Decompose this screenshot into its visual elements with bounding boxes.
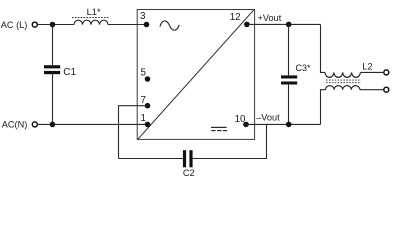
capacitor C3	[281, 75, 297, 84]
svg-text:12: 12	[230, 12, 241, 23]
svg-text:–Vout: –Vout	[256, 113, 280, 123]
node: C3 on +Vout rail	[286, 22, 292, 28]
converter module diagonal divider	[138, 10, 254, 140]
inductor L2 top winding	[325, 72, 360, 77]
capacitor C2	[183, 150, 193, 167]
node: C3 on -Vout rail	[286, 122, 292, 128]
terminal: +V output	[384, 70, 389, 75]
svg-text:AC(N): AC(N)	[2, 119, 28, 129]
node: junction of AC(N) and C1	[50, 122, 56, 128]
svg-text:C1: C1	[63, 67, 76, 78]
wire: -Vout rail up to L2 bottom winding	[321, 90, 326, 125]
wire: C3 upper lead	[288, 24, 290, 75]
pin 5	[145, 76, 151, 82]
svg-text:+Vout: +Vout	[258, 13, 282, 23]
DC symbol inside module	[211, 127, 227, 130]
wire: bottom rail right of C2 up to -Vout rail	[193, 124, 267, 158]
svg-text:L2: L2	[362, 62, 372, 72]
wire: pin 7 to bottom rail	[119, 106, 148, 159]
coupling dashed line of L1	[72, 17, 109, 19]
terminal: AC neutral input	[32, 122, 37, 127]
pin 10	[243, 122, 249, 128]
svg-text:C2: C2	[183, 168, 195, 178]
wire: +Vout rail down to L2 top winding	[321, 24, 326, 72]
wire: C3 lower lead	[288, 85, 290, 125]
wire: C1 upper lead	[52, 25, 54, 66]
wire: L2 bottom winding to output terminal	[360, 89, 384, 91]
inductor L1	[74, 20, 108, 24]
converter module U1 body	[137, 10, 254, 140]
pin 3	[144, 22, 150, 28]
svg-text:C3*: C3*	[296, 63, 312, 73]
wire: AC(L) input to pin 3	[38, 24, 147, 26]
pin 1	[145, 122, 151, 128]
wire: AC(N) input to pin 1	[38, 123, 148, 125]
wire: L2 top winding to output terminal	[360, 71, 383, 73]
wire: C1 lower lead	[52, 74, 54, 124]
wire: bottom rail left of C2	[119, 158, 183, 160]
terminal: -V output	[384, 87, 389, 92]
svg-text:L1*: L1*	[87, 7, 101, 17]
AC symbol inside module	[160, 21, 179, 30]
wire: -Vout rail	[246, 123, 321, 125]
wire: +Vout rail	[247, 23, 321, 25]
terminal: AC line input	[32, 22, 37, 27]
pin 7	[145, 103, 151, 109]
pin 12	[244, 22, 250, 28]
svg-text:AC (L): AC (L)	[1, 20, 28, 30]
svg-text:1: 1	[141, 113, 146, 124]
inductor L2 bottom winding	[326, 86, 360, 90]
node: junction of AC(L) and C1	[50, 22, 56, 28]
coupling dashed lines of L2	[326, 80, 361, 83]
svg-text:3: 3	[140, 11, 146, 22]
capacitor C1	[44, 65, 60, 74]
